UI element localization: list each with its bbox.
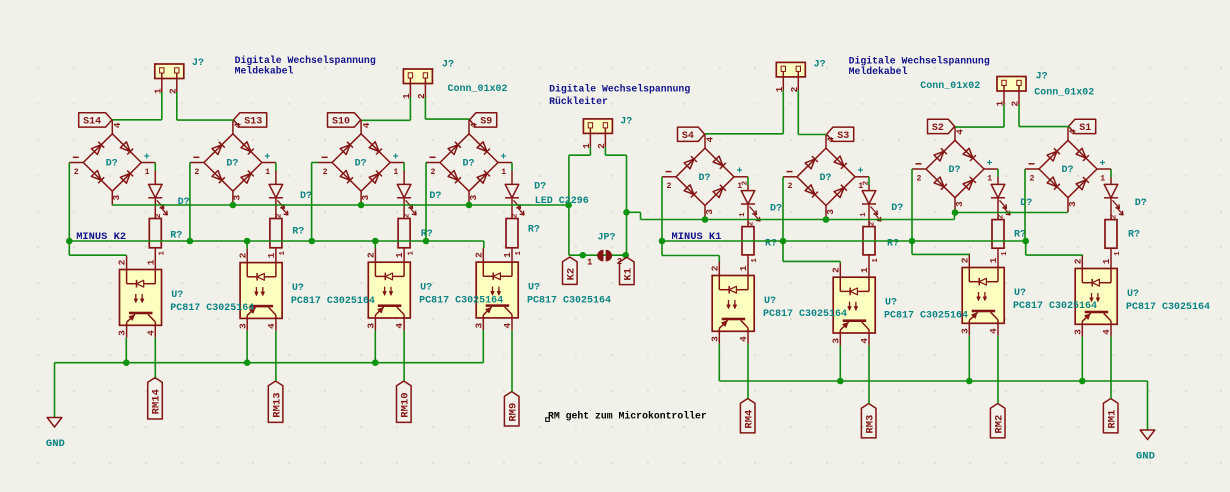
wire resistor to optocoupler xyxy=(403,247,405,249)
svg-text:4: 4 xyxy=(394,323,405,329)
svg-text:D?: D? xyxy=(1062,165,1074,176)
title Digitale Wechselspannung Rueckleiter (middle) xyxy=(549,84,690,107)
resistor refdes R? (S9) xyxy=(528,225,540,236)
resistor R? (S9 channel) xyxy=(506,213,523,256)
value Conn_01x02 (second connector) xyxy=(448,84,508,95)
optocoupler refdes U? (S10) xyxy=(420,283,432,294)
svg-text:J?: J? xyxy=(192,58,204,69)
wire J? pin2 down-right xyxy=(605,147,626,255)
LED D? (S1 channel) xyxy=(1104,177,1123,220)
junction bottom bus at S1 opto xyxy=(1079,378,1086,385)
svg-text:D?: D? xyxy=(534,181,546,192)
junction bottom bus at S3 opto xyxy=(837,378,844,385)
vertical label RM10 xyxy=(397,381,412,422)
resistor refdes R? (S13) xyxy=(292,227,304,238)
connector J? (second pair) xyxy=(401,69,433,99)
svg-text:1: 1 xyxy=(1114,251,1122,256)
wire bridge + to LED xyxy=(403,163,405,171)
svg-text:Conn_01x02: Conn_01x02 xyxy=(920,81,980,92)
svg-text:2: 2 xyxy=(830,267,841,273)
svg-text:1: 1 xyxy=(987,174,992,183)
svg-text:D?: D? xyxy=(355,159,367,170)
svg-text:2: 2 xyxy=(709,265,720,271)
svg-text:PC817 C3025164: PC817 C3025164 xyxy=(884,311,968,322)
vertical label K1 xyxy=(620,257,635,284)
LED refdes D? (S13) xyxy=(300,191,312,202)
vertical label RM2 xyxy=(990,404,1005,438)
optocoupler value PC817 C3025164 (S13) xyxy=(291,296,375,307)
svg-text:RM2: RM2 xyxy=(993,415,1005,434)
svg-text:3: 3 xyxy=(830,338,841,344)
junction MINUS bus at S9 xyxy=(423,238,430,245)
svg-text:U?: U? xyxy=(171,290,183,301)
svg-text:1: 1 xyxy=(738,265,749,271)
svg-text:2: 2 xyxy=(1030,174,1035,183)
svg-text:+: + xyxy=(393,152,399,163)
svg-text:1: 1 xyxy=(1100,174,1105,183)
svg-text:Digitale Wechselspannung: Digitale Wechselspannung xyxy=(549,84,690,95)
wire MINUS K2 bus xyxy=(69,241,484,248)
svg-text:2: 2 xyxy=(1072,258,1083,264)
junction MINUS bus at S3 xyxy=(780,238,787,245)
svg-text:U?: U? xyxy=(528,283,540,294)
resistor R? (S10 channel) xyxy=(398,213,415,256)
svg-text:R?: R? xyxy=(1128,230,1140,241)
svg-text:RM9: RM9 xyxy=(507,403,519,422)
title Digitale Wechselspannung Meldekabel (left) xyxy=(235,55,376,76)
svg-text:D?: D? xyxy=(178,197,190,208)
wire J? pin1 to S2 xyxy=(955,105,1004,128)
wire S1 opto pin2 feed xyxy=(1026,241,1083,255)
svg-text:K2: K2 xyxy=(566,268,578,281)
svg-text:PC817 C3025164: PC817 C3025164 xyxy=(1013,301,1097,312)
wire J? pin2 to S9 xyxy=(425,97,469,119)
LED refdes D? (S3) xyxy=(891,203,903,214)
vertical label RM14 xyxy=(148,378,163,419)
svg-text:2: 2 xyxy=(748,221,756,226)
svg-text:D?: D? xyxy=(699,173,711,184)
wire S4 opto pin2 feed xyxy=(662,241,719,262)
wire resistor to optocoupler xyxy=(275,247,277,250)
svg-text:R?: R? xyxy=(528,225,540,236)
svg-text:2: 2 xyxy=(155,213,163,218)
resistor refdes R? (S2) xyxy=(1014,230,1026,241)
svg-text:1: 1 xyxy=(502,252,513,258)
svg-text:2: 2 xyxy=(194,168,199,177)
svg-text:4: 4 xyxy=(361,122,372,128)
svg-text:S4: S4 xyxy=(682,131,694,142)
svg-text:+: + xyxy=(737,167,743,178)
svg-text:3: 3 xyxy=(1067,201,1078,207)
svg-text:GND: GND xyxy=(1136,451,1155,463)
svg-text:S9: S9 xyxy=(480,117,492,128)
bridge rectifier D? (S4 channel) xyxy=(662,134,748,220)
optocoupler U? (S3 channel) xyxy=(830,263,875,345)
wire S2 minus drop xyxy=(911,169,913,241)
svg-text:1: 1 xyxy=(859,267,870,273)
svg-text:3: 3 xyxy=(237,323,248,329)
vertical label RM3 xyxy=(861,404,876,438)
svg-text:1: 1 xyxy=(159,251,167,256)
wire J? pin2 to S1 xyxy=(1019,105,1070,127)
svg-text:J?: J? xyxy=(1036,71,1048,82)
refdes J? (middle connector) xyxy=(620,116,632,127)
svg-text:R?: R? xyxy=(170,231,182,242)
optocoupler U? (S13 channel) xyxy=(237,249,282,331)
wire resistor to optocoupler xyxy=(511,247,513,249)
wire branch to right D? bus xyxy=(627,212,641,219)
wire opto S13 pin3 to bus xyxy=(246,331,248,363)
optocoupler value PC817 C3025164 (S2) xyxy=(1013,301,1097,312)
svg-text:D?: D? xyxy=(226,159,238,170)
svg-text:2: 2 xyxy=(276,213,284,218)
wire S3 opto pin2 feed xyxy=(783,241,840,263)
svg-text:1: 1 xyxy=(279,251,287,256)
optocoupler refdes U? (S1) xyxy=(1127,289,1139,300)
optocoupler refdes U? (S3) xyxy=(885,298,897,309)
resistor R? (S3 channel) xyxy=(863,221,880,263)
svg-text:D?: D? xyxy=(949,165,961,176)
svg-text:1: 1 xyxy=(394,252,405,258)
LED D? (S3 channel) xyxy=(860,180,881,226)
wire D? bus left (bridge pin3 net) xyxy=(112,204,568,206)
optocoupler value PC817 C3025164 (S4) xyxy=(763,309,847,320)
svg-text:4: 4 xyxy=(145,330,156,336)
optocoupler U? (S14 channel) xyxy=(117,256,162,338)
svg-text:D?: D? xyxy=(106,159,118,170)
junction MINUS bus at S13 xyxy=(187,238,194,245)
svg-text:RM14: RM14 xyxy=(151,389,163,414)
svg-text:3: 3 xyxy=(954,201,965,207)
svg-text:U?: U? xyxy=(885,298,897,309)
svg-text:Meldekabel: Meldekabel xyxy=(849,66,908,77)
svg-text:2: 2 xyxy=(1111,214,1119,219)
vertical label RM9 xyxy=(504,392,519,426)
svg-text:Conn_01x02: Conn_01x02 xyxy=(448,84,508,95)
svg-text:4: 4 xyxy=(738,336,749,342)
junction MINUS bus at S14 xyxy=(66,238,73,245)
svg-text:2: 2 xyxy=(366,252,377,258)
svg-text:+: + xyxy=(501,152,507,163)
junction bottom bus at S2 opto xyxy=(966,378,973,385)
vertical label RM4 xyxy=(740,399,755,433)
svg-text:+: + xyxy=(1100,159,1106,170)
svg-text:RM1: RM1 xyxy=(1106,410,1118,429)
hierarchical label S3 xyxy=(827,127,854,142)
resistor R? (S2 channel) xyxy=(992,214,1009,256)
svg-text:4: 4 xyxy=(705,137,716,143)
svg-text:3: 3 xyxy=(232,195,243,201)
svg-text:Digitale Wechselspannung: Digitale Wechselspannung xyxy=(849,56,990,67)
resistor R? (S14 channel) xyxy=(149,213,166,256)
hierarchical label S10 xyxy=(328,113,361,128)
refdes J? (third pair connector) xyxy=(814,60,826,71)
wire S3 minus drop xyxy=(782,177,784,241)
junction bottom bus at S13 opto xyxy=(244,359,251,366)
svg-text:2: 2 xyxy=(667,182,672,191)
svg-text:3: 3 xyxy=(1072,329,1083,335)
wire opto S2 pin3 to bus xyxy=(968,336,970,381)
refdes JP? xyxy=(598,233,616,244)
wire bottom bus left (GND net) xyxy=(55,330,484,362)
optocoupler value PC817 C3025164 (S3) xyxy=(884,311,968,322)
svg-text:U?: U? xyxy=(1127,289,1139,300)
vertical label RM13 xyxy=(268,381,283,422)
svg-text:2: 2 xyxy=(869,221,877,226)
wire opto S14 pin3 to bus xyxy=(125,338,127,363)
LED refdes D? (S2) xyxy=(1020,198,1032,209)
wire jumper row xyxy=(569,254,627,256)
svg-text:S2: S2 xyxy=(932,123,944,134)
svg-text:1: 1 xyxy=(872,258,880,263)
wire resistor to optocoupler xyxy=(1110,248,1112,254)
resistor refdes R? (S1) xyxy=(1128,230,1140,241)
optocoupler refdes U? (S4) xyxy=(764,296,776,307)
LED refdes D? (S1) xyxy=(1135,198,1147,209)
junction MINUS bus at S2 xyxy=(909,238,916,245)
svg-text:1: 1 xyxy=(1001,251,1009,256)
wire S14 minus drop xyxy=(68,163,70,242)
svg-text:4: 4 xyxy=(955,129,966,135)
svg-text:3: 3 xyxy=(959,328,970,334)
svg-text:3: 3 xyxy=(473,323,484,329)
wire optocoupler pin4 to RM2 xyxy=(997,336,999,404)
svg-text:2: 2 xyxy=(917,174,922,183)
svg-text:2: 2 xyxy=(959,257,970,263)
hierarchical label S14 xyxy=(79,113,112,128)
svg-text:LED C2296: LED C2296 xyxy=(535,196,589,207)
svg-text:1: 1 xyxy=(587,258,593,268)
optocoupler U? (S4 channel) xyxy=(709,262,754,344)
title Digitale Wechselspannung Meldekabel (right) xyxy=(849,56,990,77)
resistor R? (S4 channel) xyxy=(742,221,759,263)
ground symbol right xyxy=(1136,381,1155,463)
wire J? pin2 to S13 xyxy=(177,92,234,120)
wire D? bus right ch5-ch6 xyxy=(641,213,955,220)
LED D? (S14 channel) xyxy=(148,171,167,219)
svg-text:2: 2 xyxy=(237,252,248,258)
wire MINUS K1 bus xyxy=(662,240,1026,242)
junction MINUS bus at S4 xyxy=(659,238,666,245)
bridge rectifier D? (S1 channel) xyxy=(1025,126,1111,212)
resistor refdes R? (S3) xyxy=(887,239,899,250)
svg-text:2: 2 xyxy=(117,259,128,265)
bridge rectifier D? (S9 channel) xyxy=(426,120,512,206)
wire bridge + to LED xyxy=(868,177,870,185)
junction D? bus termination at middle xyxy=(565,202,572,209)
hierarchical label S2 xyxy=(928,119,955,134)
svg-text:3: 3 xyxy=(704,209,715,215)
resistor R? (S13 channel) xyxy=(270,213,287,256)
junction D? bus at S3 xyxy=(823,216,830,223)
resistor refdes R? (S10) xyxy=(421,229,433,240)
optocoupler refdes U? (S2) xyxy=(1014,288,1026,299)
wire optocoupler pin4 to RM14 xyxy=(154,338,156,378)
resistor refdes R? (S4) xyxy=(765,239,777,250)
connector J? (fourth pair) xyxy=(995,77,1027,107)
wire S1 minus drop xyxy=(1024,169,1026,241)
junction MINUS bus at S10 opto xyxy=(372,238,379,245)
wire opto S1 pin3 to bus xyxy=(1081,337,1083,381)
junction MINUS bus at S1 xyxy=(1022,238,1029,245)
wire J? pin2 to S3 xyxy=(798,90,826,134)
svg-text:3: 3 xyxy=(825,209,836,215)
svg-text:Conn_01x02: Conn_01x02 xyxy=(1034,87,1094,98)
wire bridge + to LED xyxy=(154,163,156,171)
svg-text:1: 1 xyxy=(515,251,523,256)
svg-text:1: 1 xyxy=(1101,258,1112,264)
svg-text:3: 3 xyxy=(360,195,371,201)
svg-text:1: 1 xyxy=(393,168,398,177)
label LED C2296 xyxy=(535,196,589,207)
junction on D? bus at S10 xyxy=(358,202,365,209)
svg-text:K1: K1 xyxy=(623,268,635,281)
connector J? (left pair) xyxy=(152,64,184,94)
junction middle right vertical xyxy=(623,209,630,216)
svg-text:1: 1 xyxy=(145,168,150,177)
ground symbol left xyxy=(46,363,65,450)
hierarchical label S1 xyxy=(1069,119,1096,134)
optocoupler refdes U? (S9) xyxy=(528,283,540,294)
svg-text:D?: D? xyxy=(1135,198,1147,209)
LED refdes D? (S10) xyxy=(429,191,441,202)
svg-text:4: 4 xyxy=(502,323,513,329)
wire S14 opto pin2 feed xyxy=(69,241,126,256)
wire optocoupler pin4 to RM1 xyxy=(1110,337,1112,399)
svg-text:+: + xyxy=(987,159,993,170)
wire optocoupler pin4 to RM10 xyxy=(403,330,405,381)
LED refdes D? (S14) xyxy=(178,197,190,208)
junction on D? bus at S9 xyxy=(466,202,473,209)
grid dots xyxy=(37,67,1221,463)
label MINUS K1 xyxy=(672,231,722,243)
bridge rectifier D? (S3 channel) xyxy=(783,134,869,220)
wire bridge + to LED xyxy=(275,163,277,171)
wire S10 minus drop xyxy=(312,163,319,242)
svg-text:D?: D? xyxy=(820,173,832,184)
svg-text:U?: U? xyxy=(764,296,776,307)
refdes J? (left pair connector) xyxy=(192,58,204,69)
svg-text:PC817 C3025164: PC817 C3025164 xyxy=(1126,302,1210,313)
svg-text:3: 3 xyxy=(366,323,377,329)
wire J? pin1 to S10 xyxy=(362,97,411,120)
optocoupler value PC817 C3025164 (S10) xyxy=(419,296,503,307)
wire S4 minus drop xyxy=(661,177,663,241)
wire bottom bus right (GND net) xyxy=(719,344,1147,381)
svg-text:3: 3 xyxy=(117,330,128,336)
svg-text:D?: D? xyxy=(429,191,441,202)
svg-text:S13: S13 xyxy=(244,117,262,128)
LED D? (S2 channel) xyxy=(991,177,1010,220)
LED D? (S4 channel) xyxy=(739,180,760,226)
svg-text:GND: GND xyxy=(46,438,65,450)
wire opto S3 pin3 to bus xyxy=(839,345,841,381)
svg-text:S1: S1 xyxy=(1079,123,1091,134)
refdes J? (second pair connector) xyxy=(442,60,454,71)
optocoupler value PC817 C3025164 (S1) xyxy=(1126,302,1210,313)
hierarchical label S9 xyxy=(470,113,497,128)
LED D? (S9 channel) xyxy=(505,171,524,219)
wire bridge + to LED xyxy=(997,169,999,177)
wire resistor to optocoupler xyxy=(997,248,999,253)
svg-text:RM3: RM3 xyxy=(864,415,876,434)
junction jumper pin1 xyxy=(580,252,587,259)
svg-text:S10: S10 xyxy=(332,117,350,128)
svg-text:RM10: RM10 xyxy=(400,392,412,417)
svg-text:2: 2 xyxy=(512,213,520,218)
svg-text:4: 4 xyxy=(988,328,999,334)
optocoupler U? (S2 channel) xyxy=(959,254,1004,336)
value Conn_01x02 (third connector) xyxy=(920,81,980,92)
wire D? bus right ch7-ch8 xyxy=(954,212,1068,214)
label MINUS K2 xyxy=(76,231,126,243)
wire J? pin1 to S4 xyxy=(705,90,783,133)
junction D? bus at S4 xyxy=(702,216,709,223)
wire J? pin1 to S14 xyxy=(112,92,162,120)
svg-text:Rückleiter: Rückleiter xyxy=(549,96,608,107)
svg-text:U?: U? xyxy=(1014,288,1026,299)
LED refdes D? (S9) xyxy=(534,181,546,192)
svg-text:R?: R? xyxy=(887,239,899,250)
svg-text:RM geht zum Microkontroller: RM geht zum Microkontroller xyxy=(548,411,707,422)
svg-text:D?: D? xyxy=(770,204,782,215)
svg-text:2: 2 xyxy=(431,168,436,177)
junction on D? bus at S13 xyxy=(230,202,237,209)
hierarchical label S4 xyxy=(678,127,705,142)
LED refdes D? (S4) xyxy=(770,204,782,215)
wire S13 minus drop xyxy=(189,163,191,242)
svg-text:PC817 C3025164: PC817 C3025164 xyxy=(419,296,503,307)
svg-text:J?: J? xyxy=(442,60,454,71)
svg-text:PC817 C3025164: PC817 C3025164 xyxy=(291,296,375,307)
svg-text:R?: R? xyxy=(292,227,304,238)
svg-text:1: 1 xyxy=(751,258,759,263)
resistor refdes R? (S14) xyxy=(170,231,182,242)
wire optocoupler pin4 to RM9 xyxy=(511,330,513,391)
svg-text:JP?: JP? xyxy=(598,233,616,244)
wire optocoupler pin4 to RM4 xyxy=(747,344,749,399)
wire S10 opto pin2 drop xyxy=(374,241,376,248)
bridge rectifier D? (S2 channel) xyxy=(912,126,998,212)
svg-text:1: 1 xyxy=(501,168,506,177)
svg-text:1: 1 xyxy=(407,251,415,256)
svg-text:3: 3 xyxy=(111,195,122,201)
bridge rectifier D? (S13 channel) xyxy=(190,120,276,206)
svg-text:2: 2 xyxy=(473,252,484,258)
svg-text:2: 2 xyxy=(998,214,1006,219)
svg-text:D?: D? xyxy=(463,159,475,170)
wire S2 opto pin2 feed xyxy=(912,241,969,254)
wire bridge + to LED xyxy=(1110,169,1112,177)
svg-text:R?: R? xyxy=(765,239,777,250)
wire resistor to optocoupler xyxy=(747,255,749,262)
junction jumper pin2 xyxy=(622,252,629,259)
optocoupler U? (S1 channel) xyxy=(1072,255,1117,337)
value Conn_01x02 (fourth connector) xyxy=(1034,87,1094,98)
svg-text:4: 4 xyxy=(112,122,123,128)
vertical label RM1 xyxy=(1103,399,1118,433)
svg-text:PC817 C3025164: PC817 C3025164 xyxy=(170,303,254,314)
connector J? (third pair) xyxy=(774,62,806,92)
svg-text:2: 2 xyxy=(404,213,412,218)
refdes J? (fourth pair connector) xyxy=(1036,71,1048,82)
svg-text:U?: U? xyxy=(292,283,304,294)
svg-text:S14: S14 xyxy=(83,117,101,128)
optocoupler value PC817 C3025164 (S9) xyxy=(527,296,611,307)
svg-text:Digitale Wechselspannung: Digitale Wechselspannung xyxy=(235,55,376,66)
svg-text:D?: D? xyxy=(300,191,312,202)
LED D? (S10 channel) xyxy=(397,171,416,219)
